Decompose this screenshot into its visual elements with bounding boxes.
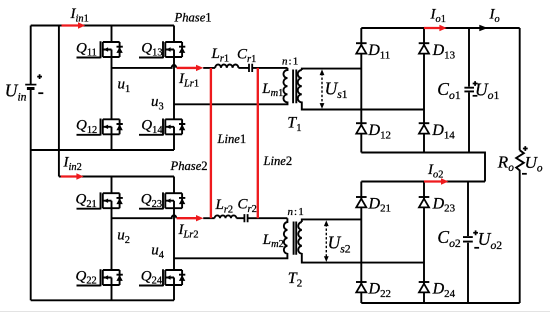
- svg-text:Uo: Uo: [525, 153, 543, 175]
- svg-text:Iin2: Iin2: [63, 155, 82, 173]
- svg-text:Line2: Line2: [263, 154, 293, 168]
- svg-text:D11: D11: [367, 42, 390, 61]
- svg-text:D23: D23: [432, 195, 456, 214]
- svg-text:Line1: Line1: [217, 132, 247, 146]
- svg-text:Cr1: Cr1: [237, 47, 256, 65]
- svg-text:Co1: Co1: [437, 79, 461, 102]
- svg-text:Uin: Uin: [5, 81, 27, 104]
- svg-text:Ro: Ro: [497, 152, 514, 174]
- svg-text:Cr2: Cr2: [238, 197, 257, 215]
- svg-text:D13: D13: [432, 42, 456, 61]
- svg-text:n:1: n:1: [288, 206, 304, 218]
- svg-text:Q14: Q14: [141, 118, 163, 136]
- svg-text:Q21: Q21: [76, 192, 97, 210]
- svg-text:u3: u3: [151, 94, 164, 112]
- svg-text:Q22: Q22: [76, 268, 97, 286]
- svg-text:D12: D12: [368, 122, 391, 141]
- svg-text:T1: T1: [287, 115, 301, 135]
- svg-text:u2: u2: [117, 228, 130, 246]
- svg-text:u4: u4: [151, 243, 165, 261]
- svg-text:Phase2: Phase2: [170, 159, 208, 173]
- svg-text:Iin1: Iin1: [70, 6, 89, 24]
- svg-text:Us1: Us1: [325, 78, 348, 101]
- svg-text:Lm2: Lm2: [262, 232, 284, 250]
- svg-text:D22: D22: [368, 281, 391, 300]
- svg-text:Lr1: Lr1: [211, 46, 230, 64]
- svg-text:Io: Io: [489, 7, 500, 25]
- svg-text:Phase1: Phase1: [174, 11, 212, 25]
- svg-text:Io2: Io2: [427, 162, 443, 180]
- svg-text:D24: D24: [432, 281, 456, 300]
- svg-text:D21: D21: [368, 195, 391, 214]
- svg-text:Q23: Q23: [141, 192, 162, 210]
- svg-text:Io1: Io1: [430, 7, 446, 25]
- svg-text:Q13: Q13: [141, 40, 162, 58]
- svg-text:Co2: Co2: [437, 227, 461, 250]
- svg-text:D14: D14: [431, 122, 455, 141]
- svg-text:Q11: Q11: [76, 40, 97, 58]
- svg-text:Uo2: Uo2: [478, 229, 502, 252]
- svg-text:Q24: Q24: [141, 268, 163, 286]
- svg-text:Lr2: Lr2: [215, 197, 234, 215]
- svg-text:u1: u1: [118, 77, 131, 95]
- svg-text:n:1: n:1: [282, 56, 298, 68]
- svg-text:Q12: Q12: [76, 118, 97, 136]
- svg-text:ILr2: ILr2: [178, 222, 199, 240]
- svg-text:Us2: Us2: [328, 233, 351, 256]
- svg-text:ILr1: ILr1: [178, 71, 199, 89]
- svg-text:Uo1: Uo1: [475, 79, 499, 102]
- svg-text:T2: T2: [288, 270, 302, 290]
- svg-text:Lm1: Lm1: [261, 81, 283, 99]
